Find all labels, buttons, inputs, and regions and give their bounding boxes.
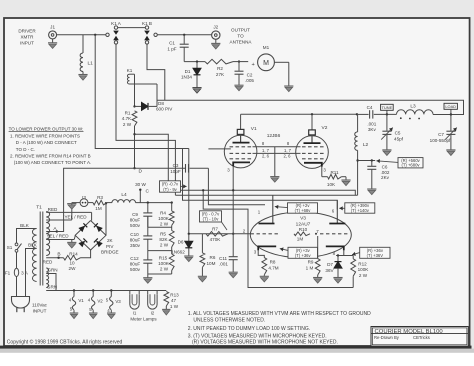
svg-text:12JB6: 12JB6 [267, 133, 281, 139]
resistor R4 100K 2W [171, 203, 173, 211]
fuse F1 3A [14, 268, 18, 276]
svg-text:470K: 470K [210, 237, 222, 242]
wire GRN tap [46, 274, 56, 291]
svg-text:Meter Lamps: Meter Lamps [130, 317, 157, 322]
ground at R11 [345, 177, 347, 180]
zener diode D6 1N662 [188, 234, 190, 242]
ground at R9 [313, 277, 322, 279]
svg-text:D - A (100 W) AND CONNECT: D - A (100 W) AND CONNECT [16, 140, 77, 145]
svg-text:47: 47 [171, 298, 177, 303]
wire YEL/RED lower tap [46, 239, 74, 241]
capacitor C10 80uF 350v [143, 235, 152, 237]
svg-text:10K: 10K [327, 182, 336, 187]
resistor R12 100K 2W [352, 256, 354, 259]
svg-text:1N34: 1N34 [181, 75, 192, 80]
svg-text:C3: C3 [173, 163, 179, 168]
diode D8 600 PIV [135, 105, 142, 107]
resistor R14 10 2W [64, 255, 81, 260]
svg-text:(T) +140v: (T) +140v [351, 208, 370, 213]
svg-text:36V: 36V [325, 268, 334, 273]
svg-text:2Kv: 2Kv [381, 175, 390, 180]
svg-text:TO: TO [237, 34, 244, 39]
svg-text:2 W: 2 W [160, 242, 169, 247]
svg-text:27K: 27K [216, 72, 225, 77]
resistor R10 1M [294, 232, 310, 236]
V3 right grid dashes [320, 233, 323, 235]
wire pin8 to R12 [336, 255, 353, 257]
svg-text:T1: T1 [36, 205, 42, 211]
svg-text:2W: 2W [69, 266, 77, 271]
meter M1 [258, 54, 275, 71]
svg-text:C7: C7 [438, 132, 444, 137]
connector J2 output to antenna [212, 31, 220, 39]
resistor R2 [205, 59, 233, 64]
wire C3 to V3 pin1 feed [208, 168, 265, 205]
capacitor C1 [183, 35, 185, 44]
svg-text:R2: R2 [217, 66, 223, 71]
svg-text:10: 10 [69, 260, 75, 265]
capacitor C11 .001 [232, 234, 234, 256]
svg-text:UNLESS OTHERWISE NOTED.: UNLESS OTHERWISE NOTED. [193, 318, 265, 324]
resistor R11 10K [322, 176, 328, 178]
resistor R8 4.7M [262, 258, 267, 275]
resistor R5 82K 2W [169, 231, 174, 248]
ground at heater V2 [89, 312, 98, 314]
svg-text:(T) +680v: (T) +680v [401, 163, 420, 168]
ground at J1 [52, 39, 54, 43]
ground between tubes [270, 176, 279, 178]
svg-text:R9: R9 [308, 260, 314, 265]
ground at lamp line [67, 203, 76, 205]
LOAD box [444, 103, 457, 109]
svg-text:350v: 350v [130, 243, 141, 248]
svg-text:B: B [57, 251, 60, 257]
ground at C7 [446, 149, 455, 151]
svg-text:V2: V2 [322, 125, 328, 131]
svg-text:3Kv: 3Kv [368, 127, 377, 132]
svg-text:100-550pf: 100-550pf [430, 138, 451, 143]
svg-text:CBTricks: CBTricks [413, 335, 430, 340]
node C1 tap [183, 34, 185, 36]
wire filter row 1 [148, 226, 172, 228]
svg-text:2 W: 2 W [160, 266, 169, 271]
svg-text:1. REMOVE WIRE FROM POINTS: 1. REMOVE WIRE FROM POINTS [10, 133, 80, 138]
svg-text:82K: 82K [159, 237, 168, 242]
meter lamp I1 [129, 291, 131, 295]
svg-text:LOAD: LOAD [445, 104, 456, 109]
ground at L1 [82, 72, 84, 75]
ground at D6 [184, 255, 193, 257]
svg-text:R6: R6 [210, 255, 216, 260]
svg-text:BRIDGE: BRIDGE [101, 250, 119, 255]
svg-text:V3: V3 [115, 299, 121, 304]
svg-text:1N662: 1N662 [171, 249, 185, 254]
ground at C11 [229, 271, 238, 273]
transformer T1 filament winding [46, 268, 48, 287]
svg-text:1 W: 1 W [170, 304, 179, 309]
svg-text:+: + [252, 62, 255, 68]
svg-text:I3: I3 [82, 195, 86, 200]
svg-text:C: C [146, 188, 150, 194]
svg-text:C2: C2 [247, 72, 253, 77]
svg-text:1 M: 1 M [306, 266, 314, 271]
capacitor C12 80uF 500v [143, 259, 152, 261]
voltage box (R)-0.7v (T)-9v [160, 181, 181, 192]
svg-text:4.7K: 4.7K [122, 116, 132, 121]
svg-text:(100 W) AND CONNECT TO POINT: (100 W) AND CONNECT TO POINT A. [14, 160, 91, 165]
inductor L3 [397, 110, 434, 115]
svg-text:(T) +68v: (T) +68v [295, 208, 312, 213]
svg-text:D8: D8 [158, 101, 164, 106]
bridge rectifier 2K PIV [75, 221, 106, 251]
svg-text:C11: C11 [219, 256, 228, 261]
connector J1 driver input [49, 31, 57, 39]
transformer T1 primary winding [32, 229, 36, 282]
wire K1B lower route to RF output line [147, 44, 165, 100]
voltage box (R)-0.7v (T)-10v [200, 211, 222, 222]
svg-text:S1: S1 [7, 245, 13, 250]
ground at R6 [198, 275, 207, 277]
svg-text:TO D - C.: TO D - C. [16, 147, 35, 152]
wire M1 to ground [274, 61, 288, 63]
heater V2 filament [92, 289, 94, 291]
capacitor C3 [135, 167, 186, 169]
svg-text:500v: 500v [130, 223, 141, 228]
svg-text:R3: R3 [97, 195, 103, 200]
wire K1B to J2 [157, 34, 211, 36]
svg-text:YEL / RED: YEL / RED [46, 234, 69, 239]
inductor L1 [82, 35, 84, 53]
svg-text:30 W: 30 W [135, 182, 146, 187]
svg-text:GRN: GRN [47, 268, 57, 273]
node R7 junction [232, 233, 234, 235]
svg-text:L2: L2 [363, 142, 369, 148]
svg-text:RED: RED [48, 207, 58, 212]
wire R7 grid line [189, 233, 251, 235]
L3 tap dots [400, 117, 402, 119]
node C 30W tap [139, 190, 141, 203]
svg-text:.001: .001 [367, 121, 376, 126]
svg-text:V1: V1 [251, 126, 257, 132]
wire grid links between tubes [253, 146, 301, 148]
svg-text:I2: I2 [151, 311, 155, 316]
ground at YEL/RED lower [71, 240, 73, 243]
svg-text:V3: V3 [300, 216, 306, 222]
wire plate line [241, 113, 357, 115]
svg-text:R13: R13 [170, 293, 179, 298]
svg-text:45pf: 45pf [394, 136, 404, 141]
heater V1 filament [73, 289, 75, 291]
wire GRN bottom to heater bus [46, 290, 166, 292]
svg-text:L3: L3 [410, 104, 416, 110]
svg-text:(T) +36V: (T) +36V [367, 253, 384, 258]
svg-text:PIV: PIV [106, 244, 114, 249]
svg-text:ANTENNA: ANTENNA [230, 40, 253, 45]
svg-text:R15: R15 [159, 255, 168, 260]
ground at C2 [234, 84, 243, 86]
svg-text:INPUT: INPUT [20, 40, 34, 45]
svg-text:R1: R1 [125, 111, 131, 116]
svg-text:2. UNIT PEAKED TO DUMMY LOAD 1: 2. UNIT PEAKED TO DUMMY LOAD 100 W SETTI… [188, 326, 310, 332]
ground at C5 [382, 149, 391, 151]
svg-text:J1: J1 [50, 25, 55, 30]
wire R14 to bridge bottom [81, 250, 91, 258]
svg-text:R14: R14 [69, 252, 78, 257]
svg-text:R12: R12 [358, 261, 367, 266]
tube V2 12JB6 [311, 114, 313, 130]
svg-text:80uF: 80uF [130, 217, 141, 222]
svg-text:J2: J2 [213, 25, 218, 30]
svg-text:(R) VOLTAGES MEASURED WITH MI: (R) VOLTAGES MEASURED WITH MICROPHONE NO… [192, 340, 338, 346]
svg-text:C10: C10 [130, 232, 139, 237]
resistor R15 100K 2W [169, 254, 174, 271]
node D [133, 167, 135, 169]
svg-text:100K: 100K [158, 216, 170, 221]
svg-text:R10: R10 [299, 227, 308, 232]
lamp I3 [80, 199, 88, 207]
svg-text:2, 6: 2, 6 [262, 154, 270, 159]
V3 left grid dashes [251, 233, 254, 235]
svg-text:BLK: BLK [20, 223, 30, 228]
svg-text:BLK: BLK [28, 243, 38, 248]
svg-text:DRIVER: DRIVER [18, 28, 36, 33]
wire K1A-K1B link [118, 27, 146, 29]
capacitor C4 [357, 113, 369, 115]
node - J1 riser junction [94, 34, 96, 36]
wire bias riser [188, 149, 190, 234]
svg-text:500v: 500v [130, 267, 141, 272]
variable capacitor C5 [386, 114, 388, 130]
svg-text:10M: 10M [207, 261, 216, 266]
svg-text:Copyright © 1998 1999 CB: Copyright © 1998 1999 CBTricks. All righ… [7, 338, 123, 345]
V3 right cathode pin 8 [326, 246, 344, 250]
wire RED top to bridge [46, 211, 91, 213]
svg-text:1M: 1M [297, 237, 304, 242]
transformer T1 core [39, 212, 41, 286]
capacitor C6 [371, 161, 373, 166]
svg-text:R4: R4 [160, 210, 166, 215]
ground at heater V3 [107, 312, 116, 314]
svg-text:D6: D6 [178, 240, 184, 245]
svg-text:GRN: GRN [47, 284, 57, 289]
wire bridge DC+ riser [105, 203, 107, 235]
svg-text:1, 7: 1, 7 [284, 148, 292, 153]
svg-text:INPUT: INPUT [33, 309, 47, 314]
heater V3 filament [110, 289, 112, 291]
node A tap [46, 231, 57, 233]
svg-text:K1: K1 [127, 68, 133, 73]
wire filter row 3 [148, 273, 172, 275]
wire A to D [57, 168, 135, 231]
diode D1 1N34 [196, 62, 198, 69]
inductor L4 [112, 200, 136, 203]
capacitor C2 [238, 62, 240, 71]
ground at heater V1 [70, 312, 79, 314]
TUNE box [381, 104, 394, 110]
svg-text:I1: I1 [133, 311, 137, 316]
wire R1 to point D [134, 126, 136, 168]
wire C1 to meter M1 [184, 61, 205, 63]
wire RF output long line [157, 100, 464, 114]
voltage box (R)+3v (T)+36v [288, 247, 318, 258]
svg-text:TO LOWER POWER OUTPUT 30 W:: TO LOWER POWER OUTPUT 30 W: [9, 126, 84, 131]
svg-text:2 W: 2 W [160, 221, 169, 226]
svg-text:1 pF: 1 pF [167, 47, 176, 52]
svg-text:C9: C9 [132, 212, 138, 217]
svg-text:100K: 100K [358, 267, 370, 272]
svg-text:(T) - 10v: (T) - 10v [203, 217, 220, 222]
wire filter row 2 [148, 250, 172, 252]
wire screen center drop [274, 147, 276, 177]
svg-text:D1: D1 [185, 69, 191, 74]
svg-text:2, 6: 2, 6 [284, 154, 292, 159]
svg-text:C12: C12 [130, 256, 139, 261]
svg-text:TUNE: TUNE [382, 105, 393, 110]
svg-text:110Vac: 110Vac [32, 303, 48, 308]
ground at J2 [215, 39, 217, 43]
title box Courier Model BL100 [371, 327, 468, 347]
wire J1 to K1A [57, 34, 106, 36]
svg-text:2 W: 2 W [123, 122, 132, 127]
svg-text:80uF: 80uF [130, 261, 141, 266]
wire J1 riser to grid bundle [95, 35, 189, 149]
ground at C6 [367, 188, 376, 190]
voltage box (R)+36v (T)+36V [360, 247, 390, 258]
wire D8 riser to RF line [156, 100, 158, 106]
node B tap [46, 257, 63, 259]
svg-text:C4: C4 [367, 105, 373, 110]
svg-text:D: D [139, 169, 143, 175]
svg-text:600 PIV: 600 PIV [156, 107, 173, 112]
V3 left cathode pin 3 [258, 246, 276, 250]
svg-text:2. REMOVE WIRE FROM R14 POINT: 2. REMOVE WIRE FROM R14 POINT B [10, 154, 91, 159]
svg-text:(T) - 9v: (T) - 9v [163, 187, 177, 192]
resistor R9 1M [317, 236, 319, 259]
ground at R13 [162, 308, 170, 310]
ground at R8 [260, 275, 269, 277]
wire R12 bottom route [203, 190, 353, 287]
svg-text:L1: L1 [88, 60, 94, 66]
resistor R7 470K [206, 232, 228, 237]
wire L4 output line [136, 202, 172, 204]
voltage box (R)+560v (T)+680v [398, 158, 423, 168]
transformer T1 secondary HV winding [46, 212, 49, 256]
svg-text:Re-Drawn By: Re-Drawn By [374, 335, 400, 340]
resistor R1 [132, 111, 137, 126]
voltage box (R)+390v (T)+140v [345, 203, 375, 213]
tube V3 12AU7 envelope [250, 212, 351, 257]
svg-text:2K: 2K [107, 238, 114, 243]
svg-text:M: M [263, 60, 269, 67]
ground at D1 [192, 87, 201, 89]
tube V1 12JB6 [240, 114, 242, 129]
node D8 line [133, 105, 135, 107]
svg-text:2 W: 2 W [359, 273, 368, 278]
svg-text:.002: .002 [381, 170, 390, 175]
resistor R13 47 1W [164, 292, 169, 307]
svg-text:XMTR: XMTR [20, 34, 34, 39]
svg-text:(T) +36v: (T) +36v [295, 253, 312, 258]
svg-text:3 A: 3 A [21, 271, 29, 276]
resistor R3 1M [88, 202, 93, 204]
svg-text:C6: C6 [382, 164, 388, 169]
svg-text:D7: D7 [327, 262, 333, 267]
svg-text:OUTPUT: OUTPUT [231, 28, 250, 33]
svg-text:100K: 100K [158, 261, 170, 266]
ground at filter [147, 274, 149, 278]
resistor R6 10M [201, 234, 203, 253]
svg-text:R8: R8 [270, 260, 276, 265]
wire primary lower BLK [26, 249, 37, 297]
V3 left plate pin 1 [272, 195, 274, 223]
variable capacitor C7 [450, 115, 452, 131]
V3 right plate pin 6 [336, 200, 338, 223]
svg-text:.001: .001 [219, 262, 228, 267]
wire B+ rail [175, 194, 357, 196]
svg-text:C1: C1 [169, 41, 175, 46]
svg-text:R11: R11 [330, 170, 339, 175]
svg-text:L4: L4 [121, 192, 127, 198]
svg-text:1, 7: 1, 7 [262, 148, 270, 153]
wire V1 grid feed [208, 148, 230, 150]
svg-text:1. ALL VOLTAGES MEASURED WITH: 1. ALL VOLTAGES MEASURED WITH VTVM ARE W… [188, 311, 371, 317]
wire K1A drop to B+ rail [116, 44, 175, 195]
svg-text:80uF: 80uF [130, 237, 141, 242]
wire primary top BLK [17, 229, 37, 244]
voltage box (R)+2v (T)+68v [288, 203, 318, 213]
wire YEL/RED tap to lamp line [46, 219, 72, 221]
inductor L2 [357, 114, 359, 132]
svg-text:4.7M: 4.7M [268, 266, 278, 271]
switch S1 [15, 243, 18, 246]
capacitor C9 80uF 500v [147, 203, 149, 213]
svg-text:1M: 1M [95, 206, 102, 211]
wire B+ to C6 [358, 160, 376, 162]
zener diode D7 36V [337, 256, 339, 262]
svg-text:C5: C5 [395, 131, 401, 136]
ground at M1 [284, 85, 293, 87]
svg-text:M1: M1 [263, 45, 270, 50]
AC plug 110Vac [12, 297, 30, 309]
svg-text:R5: R5 [160, 231, 166, 236]
wire R1 branch to cathode line [135, 134, 356, 195]
svg-text:.005: .005 [245, 78, 254, 83]
meter lamp I2 [147, 291, 149, 295]
svg-text:10pF: 10pF [170, 169, 181, 174]
svg-text:RED: RED [43, 260, 53, 265]
ground at D7 [333, 277, 342, 279]
svg-text:3. (T) VOLTAGES MEASURED WITH: 3. (T) VOLTAGES MEASURED WITH MICROPHONE… [188, 333, 327, 339]
svg-text:V1: V1 [78, 298, 84, 303]
svg-text:R7: R7 [212, 227, 218, 232]
svg-text:YEL / RED: YEL / RED [64, 214, 87, 219]
wire bundle vertical to V3 plate line [183, 149, 338, 210]
svg-text:F1: F1 [5, 271, 11, 276]
svg-text:V2: V2 [97, 299, 103, 304]
